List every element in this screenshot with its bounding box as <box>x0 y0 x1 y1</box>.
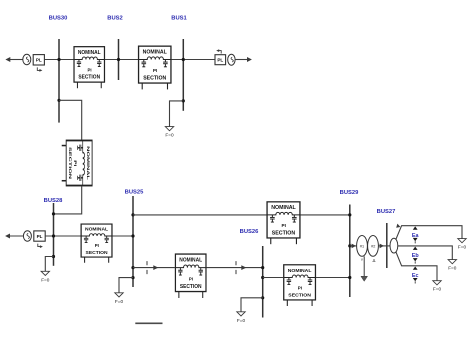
ground G3 <box>115 293 124 304</box>
svg-text:#2: #2 <box>371 245 375 249</box>
source S2 <box>228 54 235 65</box>
node BUS29 low <box>348 276 351 279</box>
svg-text:PL: PL <box>217 58 223 63</box>
source S1 <box>23 54 31 64</box>
wire: top-right with right arrowhead <box>235 57 252 62</box>
node BUS26 mid <box>261 276 264 279</box>
node BUS25 top <box>131 213 134 216</box>
wire PL1 to BUS30 <box>44 59 73 61</box>
wire BUS25 to ground G3 <box>119 278 133 293</box>
svg-text:BUS27: BUS27 <box>377 209 396 215</box>
svg-text:BUS28: BUS28 <box>44 198 63 204</box>
node BUS26 low <box>261 296 264 299</box>
bottom separator line <box>135 322 162 324</box>
svg-text:BUS29: BUS29 <box>340 190 359 196</box>
bus BUS30 <box>49 16 68 123</box>
wire B5 to BUS26 <box>207 267 263 269</box>
node label Ea <box>412 226 420 243</box>
pi-section T-line box B4 <box>81 224 112 263</box>
ground G4 <box>237 312 246 323</box>
svg-text:BUS25: BUS25 <box>125 190 144 196</box>
wire BUS28 to ground G2 <box>45 257 53 272</box>
svg-text:PL: PL <box>37 234 43 239</box>
wire BUS26 to box B7 <box>263 277 284 279</box>
wire BUS1 to ground G1 <box>170 101 184 127</box>
node BUS29 top <box>348 213 351 216</box>
node BUS1/top wire <box>182 58 185 61</box>
meter PL2 <box>215 49 226 64</box>
arrow at phase A bend <box>396 224 400 228</box>
node BUS29 mid <box>348 244 351 247</box>
bus BUS2 <box>107 16 122 81</box>
pi-section T-line box B5 <box>175 254 206 298</box>
node BUS25 low <box>131 266 134 269</box>
bus BUS28 <box>44 198 63 266</box>
pi-section T-line box B2 <box>139 46 171 89</box>
node BUS2/top wire <box>117 58 120 61</box>
bus BUS25 <box>125 190 144 288</box>
arrow into transformer <box>352 244 356 249</box>
wire transformer to BUS27 <box>378 245 386 247</box>
node label Ec <box>412 267 419 284</box>
arrow on wire BRK1 <box>153 265 158 270</box>
node BUS28 lower <box>52 255 55 258</box>
pi-section T-line box B3 (rotated) <box>62 140 92 185</box>
node BUS25 bottom <box>131 276 134 279</box>
ground G2 <box>41 271 50 282</box>
wire BUS26 to ground G4 <box>241 298 263 312</box>
wire BUS29 to transformer <box>350 245 357 247</box>
transformer neutral ground arrow <box>361 256 368 281</box>
node BUS26 top <box>261 266 264 269</box>
svg-text:BUS2: BUS2 <box>107 16 122 22</box>
bus BUS27 <box>377 209 396 268</box>
wire BUS30 to rotated box <box>59 100 82 139</box>
svg-text:BUS30: BUS30 <box>49 16 68 22</box>
wire B7 to BUS29 <box>316 277 350 279</box>
wire B1 to BUS2 <box>105 59 138 61</box>
wire B6 to BUS29 <box>301 214 350 216</box>
wire phase C <box>396 252 437 281</box>
wire BUS25 to box B5 <box>133 267 175 269</box>
bus BUS29 <box>340 190 359 297</box>
arrow into BUS27 <box>380 244 384 249</box>
pi-section T-line box B6 <box>267 202 300 244</box>
wire phase A <box>396 226 462 240</box>
bus BUS1 <box>171 16 187 111</box>
wire BUS27 to breakout <box>387 245 390 247</box>
svg-text:BUS1: BUS1 <box>171 16 187 22</box>
wire: top-left feeder with left arrowhead <box>5 57 23 62</box>
svg-text:PL: PL <box>36 58 42 63</box>
node BUS28 mid <box>52 234 55 237</box>
transformer T1 <box>357 236 379 264</box>
node label Eb <box>412 247 420 264</box>
wire PL3 to BUS28 <box>45 235 80 237</box>
pi-section T-line box B7 <box>284 265 316 306</box>
breaker BRK1 <box>146 261 148 274</box>
ground G6 <box>448 260 457 271</box>
wire B4 to BUS25 <box>113 235 134 237</box>
svg-text:BUS26: BUS26 <box>240 229 259 235</box>
wire rotated box to BUS28 <box>54 186 82 214</box>
node BUS25 mid <box>131 234 134 237</box>
node BUS30 lower <box>57 99 60 102</box>
arrow on wire BRK2 <box>241 265 246 270</box>
node BUS28 upper <box>52 212 55 215</box>
svg-text:Y: Y <box>361 258 364 262</box>
svg-text:#1: #1 <box>360 245 364 249</box>
source S3 <box>23 231 31 241</box>
ground G1 <box>165 127 174 138</box>
bus BUS26 <box>240 229 263 318</box>
wire BUS25 to box B6 (long upper) <box>133 214 267 216</box>
ground G5 <box>458 239 467 250</box>
wire phase B <box>398 246 453 260</box>
breaker BRK2 <box>235 261 237 274</box>
meter PL1 <box>33 55 44 72</box>
wire B2 to BUS1 <box>172 59 216 61</box>
node BUS30/top wire <box>57 58 60 61</box>
ground G7 <box>433 281 442 292</box>
svg-text:Δ: Δ <box>373 258 376 263</box>
node BUS1 lower <box>182 99 185 102</box>
wire: left feeder 2 with arrowhead <box>5 234 23 239</box>
meter PL3 <box>34 231 45 248</box>
pi-section T-line box B1 <box>74 47 104 89</box>
3-phase breakout <box>390 238 398 253</box>
